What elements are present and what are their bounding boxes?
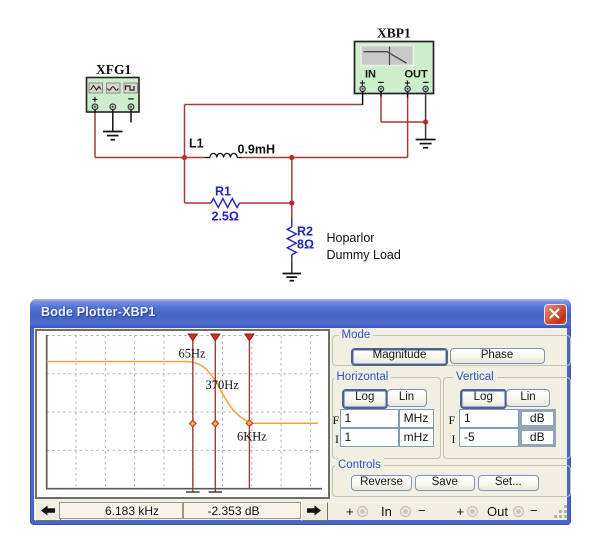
svg-text:65Hz: 65Hz [179,347,207,361]
wire bottom rail left [95,157,185,159]
resistor R1 [185,199,292,208]
svg-text:XFG1: XFG1 [96,62,131,77]
wire IN- to ground rail [381,92,426,123]
ground under R2 [283,274,302,281]
wire stub XFG1 minus [130,110,132,123]
svg-text:R2: R2 [297,225,313,239]
svg-text:6KHz: 6KHz [237,430,267,444]
svg-text:R1: R1 [215,185,231,199]
function generator XFG1 [87,62,140,112]
XFG1 terminal common [110,104,116,110]
XBP1 terminal IN+ [360,86,365,91]
wire left branch down to R1 row [184,158,186,204]
svg-text:8Ω: 8Ω [297,238,314,252]
svg-text:Hoparlor: Hoparlor [327,231,375,245]
svg-text:2.5Ω: 2.5Ω [212,210,239,224]
wire riser to top rail [184,105,186,158]
wire OUT- down [425,92,427,140]
wire node B down to node C [291,158,293,204]
wire top rail to IN+ [185,92,363,106]
XFG1 terminal - [128,104,134,110]
node B junction [289,155,294,160]
inductor L1 [185,153,292,157]
node D junction [423,119,428,124]
svg-text:370Hz: 370Hz [206,378,240,392]
svg-text:L1: L1 [189,137,204,151]
wire XFG1 common to ground [112,110,114,132]
wire node B to OUT+ rail [292,92,408,158]
svg-text:0.9mH: 0.9mH [238,143,276,157]
svg-text:XBP1: XBP1 [377,26,411,41]
bode plotter XBP1 [355,26,434,94]
annotation Hoparlor Dummy Load [327,231,401,262]
XBP1 terminal OUT- [423,86,428,91]
XFG1 terminal + [92,104,98,110]
resistor R2 [287,203,296,274]
node A junction [182,155,187,160]
svg-text:IN: IN [365,69,376,81]
XBP1 terminal IN- [378,86,383,91]
wire XFG1 plus down [94,110,96,158]
ground under XFG1 [103,132,123,140]
XBP1 terminal OUT+ [405,86,410,91]
node C junction [289,200,294,205]
ground under XBP1 [416,140,436,148]
svg-text:Dummy Load: Dummy Load [327,248,401,262]
